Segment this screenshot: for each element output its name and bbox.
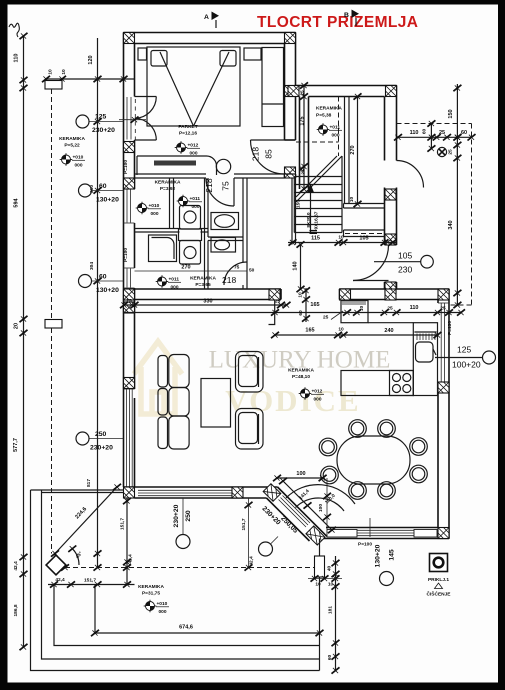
living south window label 250/230+20 (173, 498, 192, 549)
nightstands (138, 48, 261, 60)
svg-text:10: 10 (338, 235, 344, 241)
svg-text:000: 000 (190, 151, 198, 157)
svg-text:000: 000 (159, 609, 167, 615)
svg-text:151,7: 151,7 (120, 518, 126, 530)
window bath west P=100 upper (124, 189, 135, 223)
svg-text:151,7: 151,7 (241, 518, 247, 530)
svg-text:60: 60 (99, 274, 107, 281)
room label living KERAMIKA 48,10 (288, 368, 314, 381)
overhang edge line left vertical (89, 38, 102, 568)
level marker living +012 (299, 387, 324, 402)
terrace east edge vertical (319, 539, 321, 671)
room label room538 KERAMIKA 5,38 (316, 106, 342, 119)
window label circle left 2 (79, 183, 124, 204)
svg-text:+010: +010 (149, 203, 160, 209)
svg-text:250: 250 (185, 510, 192, 522)
handwritten squiggle top-left (9, 23, 19, 37)
svg-text:+010: +010 (157, 601, 168, 607)
svg-text:40: 40 (327, 566, 333, 572)
washing machine 2 (180, 241, 201, 265)
svg-text:110: 110 (14, 54, 20, 63)
svg-text:8X30,0: 8X30,0 (306, 212, 312, 228)
svg-text:304: 304 (89, 262, 95, 270)
dimension line corridor 115-10-105 (288, 235, 397, 246)
angle 45 arc (68, 546, 84, 566)
svg-text:000: 000 (151, 211, 159, 217)
window living west sliding 250 (124, 389, 135, 487)
dimension line room538 west vertical (300, 82, 308, 192)
svg-text:+011: +011 (330, 125, 341, 131)
svg-text:42,4: 42,4 (55, 577, 65, 583)
svg-text:+012: +012 (188, 143, 199, 149)
furniture bed (147, 47, 240, 126)
svg-text:115: 115 (311, 236, 320, 242)
diagonal dimension 224,6 (51, 484, 121, 557)
svg-text:150: 150 (448, 109, 454, 118)
svg-text:+010: +010 (73, 155, 84, 161)
svg-text:P=100: P=100 (358, 542, 372, 548)
svg-text:25: 25 (448, 149, 454, 155)
wall bath south (y=289-299) (124, 289, 282, 300)
svg-text:85: 85 (264, 149, 274, 159)
hatch boxes room538 (288, 86, 299, 97)
svg-text:230+20: 230+20 (173, 504, 180, 527)
terrace step outline outer (31, 490, 320, 671)
kitchen sink label 125/100+20 (435, 345, 496, 370)
hatch boxes east entry wall (385, 189, 396, 200)
door arc corridor-bath2 (224, 262, 247, 285)
svg-text:+011: +011 (169, 277, 180, 283)
svg-text:240: 240 (384, 328, 393, 334)
interior wall toilet partition (208, 237, 243, 289)
door arc terrace diagonal (286, 485, 355, 511)
svg-text:PRIKLJ.1: PRIKLJ.1 (428, 577, 449, 583)
svg-text:P=12,16: P=12,16 (179, 131, 197, 137)
pergola post mid-left (45, 320, 62, 329)
dimension line kitchen y335 (271, 327, 442, 339)
svg-text:100+20: 100+20 (452, 360, 481, 370)
svg-text:10: 10 (328, 582, 334, 588)
svg-text:P=3,65: P=3,65 (195, 282, 211, 288)
dashed canopy outline entry (397, 124, 472, 306)
window label circle left 4 (250/230+20) (76, 431, 124, 452)
dimension line entry east 110-60-25-60 (394, 129, 476, 141)
svg-text:A: A (204, 14, 209, 21)
level marker bedroom +012 (175, 141, 200, 156)
dashed line below stairs (345, 233, 385, 235)
washer shelf (179, 229, 202, 241)
svg-text:60: 60 (298, 310, 304, 316)
svg-text:218: 218 (204, 178, 214, 192)
kitchen drainer comb (417, 334, 435, 341)
extension line corner dining (323, 478, 331, 530)
window label circle left 1 (76, 114, 124, 135)
level marker exterior left +010 (60, 153, 85, 168)
svg-text:150: 150 (296, 200, 302, 208)
window bath west P=100 lower (124, 268, 135, 288)
svg-text:270: 270 (181, 265, 190, 271)
post near dining terrace (315, 556, 325, 577)
dimension 140 corridor vertical (293, 241, 305, 292)
svg-text:340: 340 (448, 220, 454, 229)
stool circle bedroom (216, 159, 230, 173)
svg-text:577,7: 577,7 (13, 438, 19, 452)
terrace step outline inner (54, 585, 320, 646)
kitchen counter south band (341, 371, 413, 396)
svg-text:000: 000 (192, 204, 200, 210)
wall kitchen north (340, 289, 450, 300)
kitchen sink (416, 342, 437, 362)
svg-text:140: 140 (293, 261, 299, 270)
wall living south (124, 487, 278, 498)
door size labels bath2 75 (222, 265, 255, 286)
room label bath2 KERAMIKA 3,65 (190, 276, 216, 289)
interior wall room538 east (345, 97, 350, 204)
svg-text:186,8: 186,8 (13, 604, 19, 616)
svg-text:KERAMIKA: KERAMIKA (155, 180, 181, 186)
overhang edge line right vertical with 150/340 (448, 84, 461, 308)
svg-text:60: 60 (327, 655, 333, 661)
hatch box living south window (232, 487, 243, 498)
dimension vertical 151,7 42,4 SW corner (120, 498, 134, 585)
window dining south glazing (357, 530, 414, 535)
svg-text:120: 120 (88, 55, 94, 64)
dimension 270 bath horizontal (135, 265, 248, 272)
svg-text:9X16,67: 9X16,67 (314, 211, 320, 229)
svg-text:10: 10 (298, 292, 304, 298)
section marker B (344, 10, 359, 27)
armchair 1 (236, 352, 264, 393)
hatch boxes west wall (124, 33, 135, 44)
dimension vertical 151,7 right of living window (241, 498, 255, 571)
svg-text:817: 817 (86, 479, 92, 487)
svg-text:75: 75 (234, 265, 240, 271)
kitchen counter east band (413, 323, 437, 396)
interior wall room538 south (344, 204, 385, 209)
door arc bedroom-bath 75 (206, 178, 234, 206)
shower bath1 (149, 235, 177, 262)
corner column rotated square (46, 555, 66, 575)
stair break diagonal (296, 156, 342, 202)
svg-text:KERAMIKA: KERAMIKA (190, 276, 216, 282)
wall kitchen-dining east (438, 289, 449, 539)
wall bedroom east (285, 33, 296, 179)
hatch diagonal lower (306, 526, 325, 545)
svg-text:10: 10 (315, 582, 321, 588)
interior wall bath-toilet vertical (205, 178, 209, 289)
svg-text:181: 181 (328, 606, 334, 614)
dimension ticks 10 10 below post (308, 575, 342, 587)
svg-text:60: 60 (461, 130, 467, 136)
svg-text:105: 105 (398, 251, 412, 261)
terrace step outline middle (42, 490, 320, 659)
svg-text:P=3,92: P=3,92 (160, 186, 176, 192)
svg-text:P=48,10: P=48,10 (292, 374, 310, 380)
interior wall bath east (243, 178, 247, 289)
toilet (211, 213, 239, 230)
svg-text:250: 250 (95, 431, 107, 438)
hatch boxes kitchen north wall (340, 289, 351, 300)
svg-text:75: 75 (221, 181, 231, 191)
svg-text:151,7: 151,7 (84, 578, 96, 584)
svg-text:230+20: 230+20 (90, 445, 113, 452)
pergola post top-left (45, 81, 62, 90)
svg-text:270: 270 (350, 145, 356, 154)
interior wall bedroom south (135, 174, 296, 178)
window sill east rect dining (414, 530, 437, 538)
room label exterior left KERAMIKA 5,22 (59, 136, 85, 149)
svg-text:25: 25 (440, 306, 446, 312)
door size labels 75/218 bath1 (204, 178, 231, 192)
dimension 100 dining diagonal top (273, 471, 327, 481)
terrace edge line x95 (94, 585, 96, 634)
room label bath1 KERAMIKA 3,92 (155, 180, 181, 193)
terrace top edge lines (31, 490, 124, 493)
svg-text:KERAMIKA: KERAMIKA (316, 106, 342, 112)
dining south window label P=100 130+20 145 (358, 518, 396, 586)
kitchen east band division (414, 331, 436, 333)
svg-text:KERAMIKA: KERAMIKA (288, 368, 314, 374)
dimension diagonal 141,4 (279, 478, 337, 533)
leader 25 niche (323, 311, 343, 321)
svg-text:674,6: 674,6 (179, 625, 193, 631)
dimension 25 rotated at drain (448, 142, 462, 161)
black frame top strip (0, 0, 505, 5)
dimension 674,6 (91, 625, 324, 637)
drain symbol entry (437, 147, 446, 156)
svg-text:10: 10 (338, 327, 344, 333)
dimension line top-left horizontal (42, 55, 135, 82)
svg-text:B: B (344, 12, 349, 19)
svg-text:000: 000 (171, 285, 179, 291)
svg-text:125: 125 (457, 345, 471, 355)
window kitchen east P=130 (438, 303, 449, 382)
svg-text:130+20: 130+20 (96, 287, 119, 294)
hatch diagonal upper (263, 484, 281, 502)
svg-text:000: 000 (75, 163, 83, 169)
svg-text:218: 218 (251, 147, 261, 161)
diagonal window labels 230+20/250 (259, 505, 300, 556)
svg-text:100: 100 (296, 471, 305, 477)
svg-text:594: 594 (14, 197, 20, 207)
svg-text:165: 165 (310, 302, 319, 308)
coffee table (201, 379, 231, 428)
entry door label 105/230 (374, 251, 433, 275)
cleaning connection symbol PRIKLJ (430, 554, 448, 572)
wall west (bedroom+bath) outer line (123, 33, 125, 488)
dining table (337, 436, 410, 484)
svg-text:25: 25 (300, 90, 306, 96)
window label circle left 3 (79, 274, 124, 295)
svg-text:42,4: 42,4 (128, 554, 134, 564)
svg-text:100: 100 (318, 504, 324, 512)
window living south sliding 250 (138, 490, 232, 495)
wall west inner segments (134, 44, 136, 488)
svg-text:105: 105 (359, 236, 368, 242)
svg-text:42,4: 42,4 (249, 556, 255, 566)
dimension column far left (13, 33, 28, 650)
level marker bath1 left +010 (136, 202, 161, 217)
svg-text:110: 110 (410, 305, 419, 311)
door arc entry main 105 (353, 245, 389, 281)
wall diagonal southeast (267, 487, 327, 541)
svg-text:25: 25 (126, 298, 132, 304)
kitchen stove (390, 371, 414, 396)
svg-text:10: 10 (61, 69, 67, 75)
svg-text:130+20: 130+20 (96, 197, 119, 204)
dashed overhang line left (51, 89, 53, 554)
dining chairs (319, 420, 427, 500)
svg-text:P=5,38: P=5,38 (316, 113, 332, 119)
svg-text:60: 60 (99, 183, 107, 190)
svg-text:42,4: 42,4 (13, 561, 19, 571)
svg-text:P=5,22: P=5,22 (64, 143, 80, 149)
interior wall corridor-stair (292, 178, 296, 245)
svg-text:130+20: 130+20 (375, 544, 382, 567)
washing machine 1 (180, 206, 201, 230)
svg-text:230+20: 230+20 (92, 127, 115, 134)
svg-text:25: 25 (439, 130, 445, 136)
svg-text:25: 25 (387, 306, 393, 312)
wall dining south (313, 528, 450, 539)
svg-text:25: 25 (301, 169, 307, 175)
svg-text:165: 165 (305, 328, 314, 334)
svg-text:TLOCRT PRIZEMLJA: TLOCRT PRIZEMLJA (257, 14, 418, 31)
svg-text:125: 125 (95, 114, 107, 121)
wall bedroom north (124, 33, 296, 44)
black frame left strip (0, 0, 8, 690)
dimension line hall-kitchen y312 (124, 302, 466, 316)
level marker terrace +010 (144, 600, 169, 615)
wall stub below bath south wall end (269, 300, 275, 325)
svg-text:000: 000 (314, 397, 322, 403)
svg-text:KERAMIKA: KERAMIKA (138, 584, 164, 590)
svg-text:10: 10 (359, 306, 365, 312)
svg-text:330: 330 (203, 298, 212, 304)
svg-text:10: 10 (349, 197, 355, 203)
svg-text:50: 50 (249, 268, 255, 274)
svg-text:+011: +011 (190, 196, 201, 202)
level marker bath1 right +011 (177, 195, 202, 210)
armchair 2 (236, 409, 264, 450)
dimension column right of terrace 40 181 60 (327, 556, 340, 674)
svg-text:KERAMIKA: KERAMIKA (59, 136, 85, 142)
wall room538 north (296, 86, 397, 97)
interior wall bath vertical small (170, 178, 174, 229)
wall room538 west (300, 97, 309, 190)
dimension line horizontal 42,4 151,7 (48, 577, 135, 588)
stair treads (294, 156, 342, 233)
svg-text:P=100: P=100 (123, 248, 129, 262)
room label bedroom PARKET (178, 124, 197, 137)
dimension line hall-kitchen y309 (120, 298, 291, 308)
kitchen counter top edge (368, 322, 413, 324)
hatch boxes bedroom north/east (285, 33, 296, 44)
door arc entry outer (397, 161, 424, 188)
door arc bedroom-corridor 85 (251, 140, 285, 174)
svg-text:25: 25 (323, 315, 329, 321)
label PRIKLJ.1 ciscenje (427, 577, 452, 598)
dimension vertical x306 10/60 (298, 287, 311, 322)
svg-text:P=130: P=130 (447, 321, 453, 335)
dresser bedroom (137, 156, 217, 175)
door arcs bedroom west shutters (135, 97, 157, 141)
interior wall entry niche (344, 230, 385, 237)
stair landing marks (310, 231, 318, 234)
svg-text:PARKET: PARKET (178, 124, 197, 130)
hatch boxes south bath wall (269, 289, 280, 300)
door size labels 85/218 corridor (251, 147, 274, 161)
svg-text:P=31,75: P=31,75 (142, 591, 160, 597)
level marker bath2 +011 (156, 275, 181, 290)
svg-text:10: 10 (48, 69, 54, 75)
room label terrace KERAMIKA 31,75 (138, 584, 164, 597)
svg-text:+012: +012 (312, 389, 323, 395)
svg-text:20: 20 (14, 323, 20, 329)
svg-text:25: 25 (275, 298, 281, 304)
window diagonal glazing (279, 496, 311, 528)
black frame right strip (498, 0, 505, 690)
bed pillows (151, 51, 236, 67)
svg-text:110: 110 (410, 130, 419, 136)
wall east entry (x=384-396) (385, 86, 397, 290)
level marker room538 +011 (317, 123, 342, 138)
stair walk line arrow (307, 184, 314, 233)
dimension 270 stair room vertical (349, 93, 362, 207)
svg-text:60: 60 (422, 129, 428, 135)
svg-text:P=100: P=100 (123, 160, 129, 174)
kitchen tall cabinet (341, 301, 368, 323)
stair labels 8X30 9X16,67 (296, 169, 320, 229)
window bedroom west shutter glazing (127, 97, 131, 140)
svg-text:000: 000 (332, 133, 340, 139)
svg-text:230: 230 (398, 265, 412, 275)
tick line at shutter middle (119, 117, 146, 123)
window sill west rect dining (327, 530, 357, 538)
sofa (158, 355, 189, 450)
wardrobe bedroom (262, 48, 284, 127)
bidet (211, 238, 236, 253)
svg-text:175: 175 (300, 116, 306, 125)
dimension short vertical at canopy (427, 120, 435, 151)
watermark house logo (134, 342, 182, 415)
hatch boxes kitchen east wall (438, 382, 449, 393)
section marker A (204, 12, 219, 29)
dashed overhang line bottom (55, 554, 315, 568)
svg-text:145: 145 (389, 549, 396, 561)
black frame bottom strip (0, 683, 505, 690)
svg-text:218: 218 (222, 275, 236, 285)
interior wall bath middle horizontal (135, 229, 209, 233)
dashed ceiling line stair (296, 97, 339, 157)
